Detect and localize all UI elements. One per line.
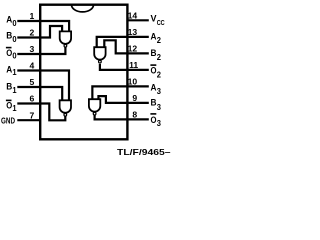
svg-text:10: 10 bbox=[128, 77, 138, 87]
svg-text:8: 8 bbox=[132, 110, 137, 120]
svg-text:B: B bbox=[151, 48, 157, 59]
svg-text:6: 6 bbox=[30, 94, 35, 104]
svg-text:2: 2 bbox=[157, 53, 162, 62]
svg-text:GND: GND bbox=[1, 115, 15, 125]
svg-text:3: 3 bbox=[157, 87, 162, 96]
svg-text:B: B bbox=[151, 98, 157, 109]
svg-text:3: 3 bbox=[30, 44, 35, 54]
svg-text:TL/F/9465–: TL/F/9465– bbox=[117, 148, 171, 157]
svg-text:12: 12 bbox=[128, 44, 138, 54]
svg-text:1: 1 bbox=[12, 104, 17, 113]
svg-text:CC: CC bbox=[157, 18, 165, 27]
svg-text:2: 2 bbox=[30, 28, 35, 38]
svg-text:5: 5 bbox=[30, 77, 35, 87]
svg-text:13: 13 bbox=[128, 27, 138, 37]
svg-text:A: A bbox=[151, 31, 157, 42]
svg-text:9: 9 bbox=[132, 93, 137, 103]
svg-text:3: 3 bbox=[157, 119, 162, 128]
svg-text:2: 2 bbox=[157, 70, 162, 79]
svg-text:14: 14 bbox=[128, 10, 138, 20]
svg-text:4: 4 bbox=[30, 61, 35, 71]
svg-text:0: 0 bbox=[12, 35, 17, 44]
svg-text:A: A bbox=[151, 83, 157, 94]
svg-text:1: 1 bbox=[12, 68, 17, 77]
svg-text:0: 0 bbox=[12, 52, 17, 61]
svg-text:1: 1 bbox=[12, 86, 17, 95]
svg-text:3: 3 bbox=[157, 103, 162, 112]
svg-text:7: 7 bbox=[30, 110, 35, 120]
svg-text:2: 2 bbox=[157, 36, 162, 45]
svg-text:11: 11 bbox=[129, 60, 138, 70]
svg-text:1: 1 bbox=[30, 11, 35, 21]
svg-text:0: 0 bbox=[12, 19, 17, 28]
